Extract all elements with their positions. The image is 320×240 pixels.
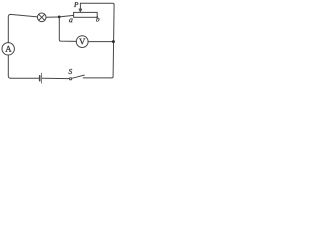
label S (switch) (69, 69, 72, 74)
switch S: open lever blade (72, 75, 85, 78)
wire: voltmeter to right junction (88, 41, 112, 43)
rheostat R (slide resistor body) (74, 12, 98, 17)
rheostat wiper P (stem and arrow) (79, 3, 82, 12)
label P (wiper) (74, 2, 78, 7)
wire: right vertical (top corner down to bottom corner) (112, 5, 114, 78)
wire: left vertical below ammeter with bottom-left corner (8, 55, 10, 78)
ammeter A (circle) (2, 43, 14, 55)
node: junction dot (lamp / rheostat / voltmeter branch) (58, 16, 61, 19)
wire: lamp to junction node (46, 16, 58, 18)
battery cell: long thin positive plate (41, 73, 43, 83)
label A (ammeter letter) (5, 46, 11, 52)
lamp L (circle with X) (37, 13, 46, 22)
label V (voltmeter letter) (79, 39, 85, 45)
wire: branch down from junction to voltmeter (59, 18, 76, 41)
node: junction dot (voltmeter right terminal on right wire) (112, 40, 115, 43)
label a (rheostat left terminal) (69, 19, 72, 23)
wire: wiper to top-right corner (80, 3, 114, 5)
label b (rheostat right terminal) (96, 16, 99, 21)
wire: battery to switch (42, 77, 69, 79)
voltmeter V (circle) (76, 36, 88, 48)
wire: top horizontal from corner to lamp (11, 14, 38, 17)
battery cell: short thick negative plate (39, 76, 41, 81)
wire: top-left corner and left vertical (down to ammeter) (8, 14, 10, 42)
wire: bottom horizontal to battery (11, 77, 39, 79)
wire: switch to bottom-right corner (83, 77, 112, 79)
wire: junction to rheostat terminal a (61, 15, 74, 16)
switch S: pivot contact circle (70, 78, 72, 80)
